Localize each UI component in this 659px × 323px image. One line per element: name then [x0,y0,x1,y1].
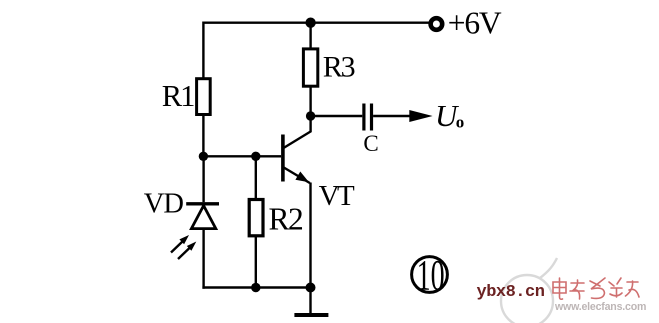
wire bottom rail [202,286,310,288]
resistor R2 [249,200,263,236]
capacitor C [364,104,372,131]
node collector junction [306,111,315,120]
svg-text:VD: VD [144,188,184,219]
wire emitter down [309,183,311,288]
ground [294,288,328,316]
wire R3 bottom [309,86,311,116]
transistor VT base bar [281,135,285,182]
watermark brush characters [553,278,639,299]
watermark logo swirl [501,258,557,323]
svg-text:o: o [456,113,465,132]
svg-text:C: C [363,131,378,156]
photodiode VD cathode bar [186,202,219,205]
light arrow 2 [178,242,196,260]
wire VD bottom [202,229,204,289]
wire R3 top [309,23,311,49]
svg-text:R1: R1 [162,79,194,113]
wire R2 top [255,156,257,199]
svg-text:10: 10 [417,252,445,299]
svg-text:R3: R3 [323,50,355,83]
+6V terminal [431,18,443,30]
wire base [203,155,281,157]
photodiode VD triangle [191,206,215,229]
output arrow [409,110,432,122]
node bottom emitter junction [306,283,316,293]
svg-text:VT: VT [319,180,355,212]
wire R2 bottom [255,236,257,288]
svg-text:ybx8.cn: ybx8.cn [477,283,545,302]
node bottom R2 junction [251,283,260,292]
wire capacitor to output [373,115,414,117]
resistor R1 [197,79,211,115]
transistor VT collector lead [284,116,311,148]
svg-text:+6V: +6V [448,5,502,40]
figure number 10 [412,252,448,299]
transistor VT emitter arrow [295,172,309,183]
wire VD top [202,156,204,202]
node base R2 junction [251,152,260,161]
svg-text:www.elecfans.com: www.elecfans.com [554,301,646,313]
label Uo [435,98,464,133]
node base R1 junction [199,152,208,161]
resistor R3 [303,49,317,86]
wire R1 bottom [202,115,204,157]
svg-text:R2: R2 [269,202,304,237]
wire top rail [203,23,429,79]
wire collector to capacitor [311,115,363,117]
transistor VT emitter lead [284,168,310,183]
node top rail R3 junction [305,18,315,28]
light arrow 1 [171,235,189,253]
